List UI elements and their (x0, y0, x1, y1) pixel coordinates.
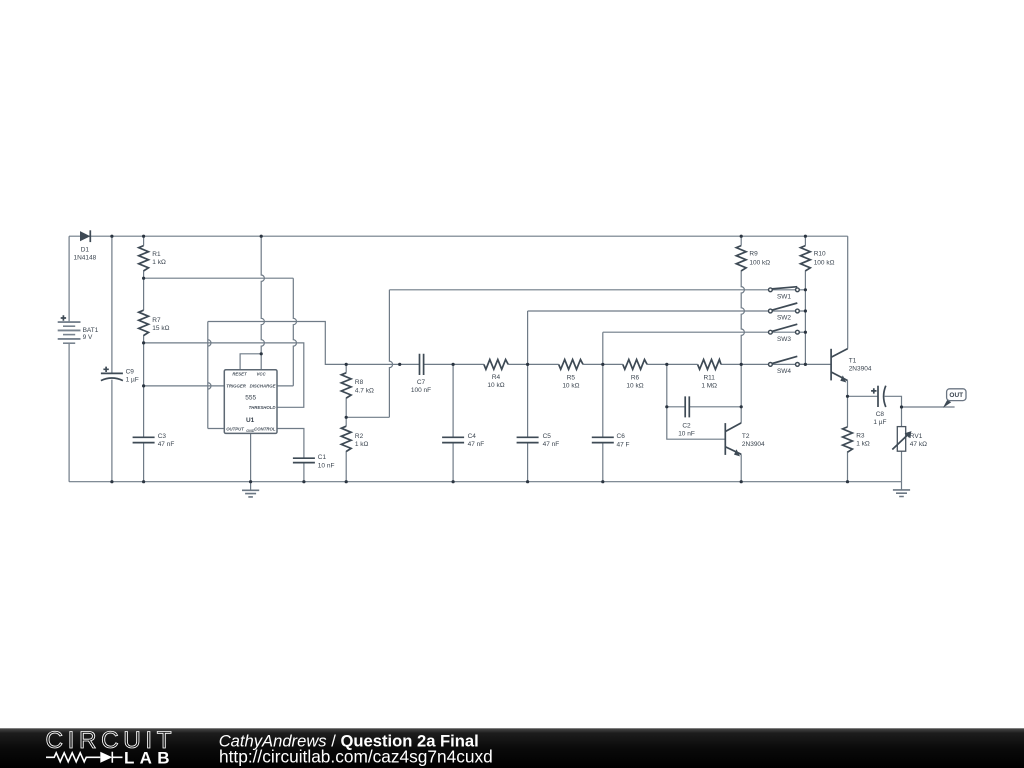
wire VCC vertical (261, 236, 264, 370)
svg-text:C2: C2 (682, 422, 691, 429)
wire T2 base net (667, 364, 726, 439)
wire C6-SW3 branch (603, 332, 769, 482)
footer title line (219, 732, 479, 751)
node OUT flag (943, 389, 966, 408)
capacitor C7 (411, 354, 431, 394)
wire R9 branch (741, 236, 744, 364)
svg-text:47 F: 47 F (617, 441, 630, 448)
svg-text:R4: R4 (492, 374, 501, 381)
svg-text:RV1: RV1 (910, 433, 923, 440)
switch SW3 (768, 324, 805, 343)
svg-text:THRESHOLD: THRESHOLD (249, 405, 276, 410)
footer url line (219, 746, 493, 766)
svg-text:C4: C4 (468, 433, 477, 440)
potentiometer RV1 (892, 427, 927, 452)
capacitor C2 (678, 396, 695, 437)
svg-text:TRIGGER: TRIGGER (226, 384, 247, 389)
wire threshold link (144, 343, 304, 407)
switch SW1 (768, 287, 805, 301)
svg-text:555: 555 (245, 395, 256, 402)
wire T2 emitter (740, 454, 742, 481)
capacitor C1 (293, 454, 335, 469)
transistor T1 (831, 349, 872, 383)
wire output net (208, 322, 420, 429)
svg-text:10 kΩ: 10 kΩ (562, 383, 579, 390)
wire control to C1 (277, 429, 304, 482)
svg-text:SW2: SW2 (777, 315, 791, 322)
switch SW2 (768, 303, 805, 322)
svg-text:C8: C8 (876, 411, 885, 418)
wire signal line mid (424, 363, 831, 365)
svg-text:OUT: OUT (949, 392, 963, 399)
logo CIRCUIT text (46, 727, 177, 754)
resistor R9 (736, 246, 770, 271)
svg-text:R9: R9 (749, 251, 758, 258)
svg-text:15 kΩ: 15 kΩ (152, 325, 169, 332)
svg-text:C9: C9 (126, 369, 135, 376)
svg-text:LAB: LAB (124, 749, 175, 768)
svg-text:C6: C6 (617, 433, 626, 440)
wire C4 branch (452, 364, 454, 481)
wire reset link (240, 354, 261, 370)
svg-text:http://circuitlab.com/caz4sg7n: http://circuitlab.com/caz4sg7n4cuxd (219, 746, 493, 766)
svg-text:1 kΩ: 1 kΩ (152, 259, 166, 266)
svg-text:R7: R7 (152, 317, 161, 324)
svg-text:BAT1: BAT1 (83, 327, 99, 334)
transistor T2 (725, 423, 765, 457)
svg-text:100 nF: 100 nF (411, 387, 431, 394)
wire C8 link (848, 396, 902, 407)
capacitor C3 (133, 433, 175, 448)
wire left battery branch (68, 236, 70, 482)
resistor R11 (698, 360, 721, 390)
svg-text:D1: D1 (81, 247, 90, 254)
svg-text:100 kΩ: 100 kΩ (814, 259, 835, 266)
wire R1-R7-C3 branch (143, 236, 145, 482)
svg-text:1 MΩ: 1 MΩ (701, 383, 717, 390)
svg-text:DISCHARGE: DISCHARGE (250, 384, 276, 389)
op-amp U1 555 timer box (224, 370, 277, 434)
svg-text:CONTROL: CONTROL (254, 426, 276, 431)
wire R8-R2 branch (345, 364, 347, 481)
resistor R2 (341, 426, 368, 451)
svg-text:1 µF: 1 µF (873, 419, 886, 426)
svg-text:R6: R6 (631, 375, 640, 382)
svg-text:10 nF: 10 nF (318, 462, 335, 469)
svg-text:9 V: 9 V (83, 334, 93, 341)
svg-text:1N4148: 1N4148 (74, 255, 97, 262)
svg-text:1 kΩ: 1 kΩ (355, 441, 369, 448)
logo resistor-diode drawing (46, 752, 123, 763)
svg-text:10 kΩ: 10 kΩ (626, 383, 643, 390)
svg-text:47 nF: 47 nF (468, 441, 485, 448)
switch SW4 (768, 356, 805, 375)
svg-text:R1: R1 (152, 251, 161, 258)
capacitor C8 (871, 386, 886, 426)
wire C2 link (667, 406, 741, 408)
svg-text:47 nF: 47 nF (543, 441, 560, 448)
wire right gnd stub (901, 482, 903, 490)
resistor R7 (139, 310, 170, 335)
resistor R3 (843, 427, 870, 452)
svg-text:RESET: RESET (232, 372, 247, 377)
resistor R8 (341, 373, 374, 398)
resistor R6 (623, 360, 647, 390)
svg-text:R2: R2 (355, 433, 364, 440)
diode D1 (74, 230, 97, 261)
wire OUT link (902, 406, 955, 408)
ground under 555 (242, 490, 259, 497)
svg-text:GND: GND (246, 429, 254, 433)
logo LAB text (124, 749, 175, 768)
wire C9 branch (111, 236, 113, 482)
capacitor C9 (101, 367, 139, 384)
ground right (893, 490, 910, 497)
capacitor C5 (517, 433, 560, 448)
wire R10 branch (804, 236, 806, 364)
svg-text:R5: R5 (567, 375, 576, 382)
svg-text:C7: C7 (417, 379, 426, 386)
capacitor C4 (442, 433, 484, 448)
wire top power rail (69, 235, 848, 237)
svg-text:4.7 kΩ: 4.7 kΩ (355, 387, 374, 394)
svg-text:10 nF: 10 nF (678, 431, 695, 438)
svg-text:U1: U1 (246, 417, 255, 424)
wire T2 collector (740, 364, 742, 423)
svg-text:SW3: SW3 (777, 336, 791, 343)
svg-text:VCC: VCC (256, 372, 266, 377)
svg-text:SW4: SW4 (777, 368, 791, 375)
resistor R5 (559, 360, 583, 390)
svg-text:R11: R11 (703, 375, 715, 382)
svg-text:R10: R10 (814, 251, 826, 258)
wire T1 emitter to R3 (847, 381, 849, 482)
svg-text:1 µF: 1 µF (126, 377, 139, 384)
svg-text:R3: R3 (856, 433, 865, 440)
svg-text:C1: C1 (318, 454, 327, 461)
wire C5-SW2 branch (528, 311, 769, 482)
svg-text:T2: T2 (742, 433, 750, 440)
wire trigger link (144, 385, 225, 387)
wire SW1 feedback net (346, 290, 768, 418)
resistor R10 (801, 246, 835, 271)
svg-text:C3: C3 (158, 433, 167, 440)
svg-text:C5: C5 (543, 433, 552, 440)
footer bar (0, 728, 1024, 768)
svg-text:10 kΩ: 10 kΩ (487, 382, 504, 389)
svg-text:47 kΩ: 47 kΩ (910, 441, 927, 448)
capacitor C6 (592, 433, 630, 448)
wire 555 gnd pin (250, 433, 252, 490)
wire bottom ground rail (69, 481, 901, 483)
wire RV1 branch (901, 407, 903, 482)
resistor R1 (139, 246, 166, 271)
svg-text:R8: R8 (355, 379, 364, 386)
svg-text:2N3904: 2N3904 (849, 366, 872, 373)
wire node A to discharge (144, 278, 297, 386)
resistor R4 (484, 360, 508, 390)
svg-text:47 nF: 47 nF (158, 441, 175, 448)
svg-text:SW1: SW1 (777, 293, 791, 300)
battery BAT1 (58, 315, 99, 343)
svg-text:100 kΩ: 100 kΩ (749, 259, 770, 266)
svg-text:OUTPUT: OUTPUT (226, 426, 244, 431)
wire T1 collector (847, 236, 849, 348)
svg-text:T1: T1 (849, 358, 857, 365)
svg-text:2N3904: 2N3904 (742, 441, 765, 448)
svg-text:1 kΩ: 1 kΩ (856, 441, 870, 448)
